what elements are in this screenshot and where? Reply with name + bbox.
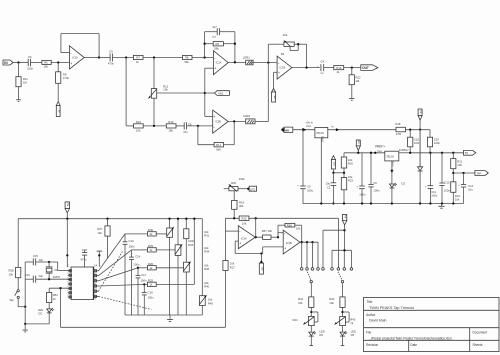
node <box>98 56 100 58</box>
svg-text:IC1A: IC1A <box>72 56 78 60</box>
svg-text:470n: 470n <box>80 258 87 262</box>
net flag 5V right <box>464 150 476 155</box>
op-amp IC2B <box>213 110 229 133</box>
node <box>343 172 345 174</box>
svg-text:+: + <box>278 71 280 75</box>
node <box>153 125 155 127</box>
wire wiper to VB1 <box>157 92 205 94</box>
svg-text:R6: R6 <box>44 61 48 65</box>
svg-text:Tap: Tap <box>9 298 14 302</box>
svg-text:R4: R4 <box>281 52 285 56</box>
node <box>320 202 322 204</box>
capacitor C7 <box>205 25 235 39</box>
node <box>419 129 421 131</box>
wire fan diagonals <box>99 234 152 310</box>
op-amp IC3B <box>283 230 300 254</box>
node <box>143 283 145 285</box>
capacitor C2 <box>357 153 366 204</box>
resistor R16 <box>324 66 344 75</box>
svg-text:5V: 5V <box>419 110 423 114</box>
resistor R18 <box>395 122 405 136</box>
svg-text:R36: R36 <box>204 267 210 271</box>
svg-text:100n: 100n <box>373 188 380 192</box>
node <box>153 56 155 58</box>
node <box>66 254 68 256</box>
node <box>203 56 205 58</box>
svg-text:10k: 10k <box>296 226 301 230</box>
LDR2 <box>243 114 255 124</box>
capacitor C19 column <box>142 284 154 315</box>
wire IC1B plus to VB <box>274 72 278 88</box>
svg-text:R25: R25 <box>148 279 154 283</box>
regulator 78L05 second <box>385 151 410 161</box>
svg-text:10k: 10k <box>204 246 209 250</box>
capacitor C8 <box>176 122 213 134</box>
svg-text:LED: LED <box>38 308 43 312</box>
svg-text:C20: C20 <box>434 137 440 141</box>
wire <box>192 57 213 59</box>
node <box>409 152 411 154</box>
svg-text:100n: 100n <box>140 279 147 283</box>
wire feedback IC1B <box>306 44 308 67</box>
potentiometer R31 <box>167 219 174 315</box>
node <box>66 218 68 220</box>
wire <box>255 63 268 122</box>
svg-text:R43: R43 <box>350 317 356 321</box>
regulator 78L05 <box>306 120 328 137</box>
capacitor C18 <box>80 248 87 267</box>
wire to TAP flag <box>453 172 475 174</box>
resistor R17 <box>223 231 235 327</box>
svg-text:10k: 10k <box>204 264 209 268</box>
resistor R41 <box>298 297 314 317</box>
svg-text:10k: 10k <box>457 163 462 167</box>
capacitor C15 <box>25 254 49 265</box>
svg-text:VB: VB <box>333 162 337 166</box>
svg-text:10k: 10k <box>242 221 247 225</box>
resistor R9 <box>56 63 70 102</box>
resistor R26 row <box>138 262 184 270</box>
svg-text:R41: R41 <box>298 297 304 301</box>
chip right pins <box>94 270 99 301</box>
svg-text:R20: R20 <box>231 181 237 185</box>
svg-text:C16: C16 <box>25 273 31 277</box>
chip left pins <box>67 270 71 298</box>
svg-text:VB: VB <box>273 95 277 99</box>
wire <box>24 262 26 324</box>
svg-text:C14: C14 <box>135 255 141 259</box>
capacitor C16 bottom row <box>25 273 71 283</box>
node <box>306 241 308 243</box>
svg-text:C3: C3 <box>28 55 32 59</box>
svg-text:Sheets: Sheets <box>473 343 483 347</box>
wire <box>344 67 361 69</box>
node <box>452 172 454 174</box>
svg-text:LED: LED <box>319 329 324 333</box>
resistor R20a <box>341 153 353 178</box>
svg-text:R13: R13 <box>168 120 174 124</box>
svg-text:R34: R34 <box>204 250 210 254</box>
svg-text:100n: 100n <box>434 141 441 145</box>
input connector IN <box>3 60 13 65</box>
svg-text:Out: Out <box>377 149 382 153</box>
wire pin1 feed <box>66 219 68 267</box>
svg-text:10k: 10k <box>348 175 353 179</box>
wire IC3B minus stub <box>278 225 283 237</box>
svg-text:56k: 56k <box>214 46 219 50</box>
wire to C5 <box>302 130 304 186</box>
svg-text:R33: R33 <box>188 243 194 247</box>
pot labels column <box>204 230 210 289</box>
svg-text:C7: C7 <box>212 35 216 39</box>
svg-text:VB: VB <box>261 267 265 271</box>
wire IC3B out row <box>300 241 318 243</box>
resistor R38 <box>278 223 302 242</box>
wire to IC3B plus <box>263 247 284 254</box>
wire <box>234 32 236 63</box>
diode D2 <box>399 130 423 204</box>
svg-text:TWIN PEAKS Tap Tremolo: TWIN PEAKS Tap Tremolo <box>369 306 414 310</box>
wire feedback vertical <box>255 218 257 237</box>
svg-text:5V: 5V <box>343 215 347 219</box>
node <box>332 202 334 204</box>
wire long ground loop <box>61 288 226 327</box>
node <box>351 66 353 68</box>
svg-text:100u: 100u <box>307 189 314 193</box>
svg-text:100n: 100n <box>129 245 136 249</box>
svg-text:R31: R31 <box>204 234 210 238</box>
svg-text:LDR1: LDR1 <box>243 56 251 60</box>
wire feedback left vertical <box>204 32 206 58</box>
wire vertical to trimmer <box>153 58 155 89</box>
svg-text:C15: C15 <box>414 137 420 141</box>
svg-text:..\Pedal projects\Twin Peaks T: ..\Pedal projects\Twin Peaks Tremolo\sch… <box>369 336 452 340</box>
svg-text:D6: D6 <box>319 333 323 337</box>
svg-text:100n: 100n <box>148 296 155 300</box>
svg-text:R32: R32 <box>53 293 59 297</box>
svg-text:78L05: 78L05 <box>316 131 324 135</box>
wire IC2A plus input <box>205 68 214 116</box>
svg-text:C9: C9 <box>109 50 113 54</box>
resistor R5 <box>205 42 235 51</box>
capacitor C9 <box>99 50 114 66</box>
capacitor C13 column <box>123 234 135 315</box>
node <box>17 61 19 63</box>
svg-text:100n: 100n <box>444 188 451 192</box>
node <box>332 172 334 174</box>
resistor R30 row <box>125 228 167 236</box>
svg-text:IC2A: IC2A <box>216 61 222 65</box>
wire IC2B plus <box>205 115 213 117</box>
svg-text:1N5817: 1N5817 <box>399 148 409 152</box>
svg-text:10k: 10k <box>455 198 460 202</box>
node <box>193 218 195 220</box>
wire IC3A plus <box>235 241 263 253</box>
svg-text:R30: R30 <box>148 228 154 232</box>
svg-text:R26: R26 <box>148 262 154 266</box>
svg-text:R16: R16 <box>336 66 342 70</box>
net flag TAP <box>475 171 488 176</box>
svg-text:R11: R11 <box>23 77 28 81</box>
potentiometer R43 <box>334 312 356 326</box>
svg-text:D2: D2 <box>402 182 406 186</box>
node <box>462 172 464 174</box>
net label VREF <box>374 145 385 154</box>
node <box>255 236 257 238</box>
node <box>267 61 269 63</box>
svg-text:100n: 100n <box>133 263 140 267</box>
wire 5V out <box>328 125 396 132</box>
resistor R19 <box>232 191 245 219</box>
resistor R21 <box>451 153 463 182</box>
resistor R14 feedback <box>198 121 234 151</box>
wire LFO bottom rail <box>125 314 202 316</box>
node <box>343 249 345 251</box>
wire <box>143 57 183 59</box>
node <box>429 152 431 154</box>
net flag VB1 <box>205 91 230 96</box>
resistor R28 <box>9 219 21 290</box>
svg-text:100k: 100k <box>239 177 246 181</box>
svg-text:10k: 10k <box>208 298 213 302</box>
wire IC1B output <box>292 67 320 69</box>
svg-text:+: + <box>70 62 72 66</box>
svg-text:IC1B: IC1B <box>279 66 285 70</box>
svg-text:R45: R45 <box>208 301 214 305</box>
node <box>357 152 359 154</box>
node <box>233 120 235 122</box>
node <box>24 306 26 308</box>
svg-text:10k: 10k <box>204 281 209 285</box>
wire <box>153 98 155 126</box>
wire IC3A minus <box>226 218 239 231</box>
wire <box>25 323 49 325</box>
capacitor C10a box <box>408 130 421 153</box>
svg-text:VB1: VB1 <box>218 92 224 96</box>
svg-text:C15: C15 <box>33 254 39 258</box>
svg-text:LFO: LFO <box>250 187 255 191</box>
wire GND pin 78L05 <box>320 136 324 204</box>
svg-text:C6: C6 <box>373 181 377 185</box>
svg-text:+9v in: +9v in <box>306 120 314 124</box>
node <box>57 61 59 63</box>
capacitor C17 column <box>136 268 147 315</box>
node <box>255 217 257 219</box>
svg-text:14: 14 <box>94 263 98 267</box>
node <box>197 125 199 127</box>
resistor R13 <box>166 120 176 133</box>
svg-text:40k: 40k <box>283 33 288 37</box>
node <box>277 236 279 238</box>
wire IC3A out <box>255 236 262 238</box>
capacitor C10 <box>439 153 450 204</box>
output connector OUT <box>361 65 378 71</box>
svg-text:5V: 5V <box>465 151 469 155</box>
svg-text:R7: R7 <box>136 56 140 60</box>
node <box>301 241 303 243</box>
ground <box>16 100 21 102</box>
net flag OSC down <box>342 215 347 231</box>
node <box>441 202 443 204</box>
wire vertical to lower row <box>125 58 127 126</box>
svg-text:10u: 10u <box>468 188 473 192</box>
node <box>48 278 50 280</box>
node <box>106 218 108 220</box>
LED D1 <box>390 183 397 204</box>
svg-text:10k: 10k <box>163 88 168 92</box>
capacitor C20 box <box>427 130 440 153</box>
svg-text:C11: C11 <box>431 190 436 194</box>
svg-text:R21: R21 <box>457 159 463 163</box>
capacitor C14 column <box>129 250 141 315</box>
wire ground rail power <box>303 203 464 205</box>
svg-text:10k: 10k <box>348 158 353 162</box>
capacitor C5 <box>297 184 313 203</box>
ground <box>23 324 28 332</box>
svg-text:R38: R38 <box>287 223 293 227</box>
net flag VB lfo <box>259 254 264 275</box>
node <box>168 218 170 220</box>
resistor R29 row <box>132 244 176 252</box>
node <box>260 252 262 254</box>
svg-text:100n: 100n <box>27 66 34 70</box>
node <box>24 323 26 325</box>
node <box>233 217 235 219</box>
resistor R24 <box>451 182 461 204</box>
potentiometer R44 <box>293 312 318 326</box>
svg-text:LED: LED <box>351 329 356 333</box>
switch dashes left <box>307 272 312 297</box>
svg-text:VB: VB <box>357 140 361 144</box>
svg-text:C10: C10 <box>444 180 450 184</box>
wire IC3A feedback row <box>226 217 339 219</box>
svg-text:R8: R8 <box>185 56 189 60</box>
svg-text:10k: 10k <box>97 231 102 235</box>
svg-text:470k: 470k <box>63 76 70 80</box>
capacitor C1 <box>326 173 337 204</box>
wire feedback IC1A <box>61 34 99 58</box>
svg-text:10k: 10k <box>204 230 209 234</box>
svg-text:File: File <box>366 331 371 335</box>
header circles <box>300 268 352 271</box>
svg-text:10k: 10k <box>9 272 14 276</box>
svg-text:78L05: 78L05 <box>386 155 394 159</box>
svg-text:GND: GND <box>320 136 324 142</box>
svg-text:5V: 5V <box>66 202 70 206</box>
svg-text:C12: C12 <box>468 184 474 188</box>
node <box>419 202 421 204</box>
node <box>137 267 139 269</box>
svg-text:Out: Out <box>306 124 311 128</box>
ground <box>349 98 354 100</box>
ground <box>438 204 444 209</box>
resistor R22 <box>349 68 361 99</box>
switch SW1 tap <box>9 290 25 307</box>
resistor R35 <box>239 216 249 225</box>
svg-text:C5: C5 <box>307 185 311 189</box>
svg-text:TAP: TAP <box>476 171 481 175</box>
capacitor C3 <box>27 55 34 71</box>
node <box>297 43 299 45</box>
svg-text:IC2B: IC2B <box>215 120 221 124</box>
resistor R25 row <box>144 219 194 287</box>
svg-text:R44: R44 <box>293 318 299 322</box>
svg-text:R23: R23 <box>348 178 354 182</box>
svg-text:R40: R40 <box>204 285 210 289</box>
resistor R27 <box>97 219 110 259</box>
wire IC2A output <box>228 62 246 64</box>
svg-text:R22: R22 <box>356 75 362 79</box>
resistor R7 <box>133 55 143 64</box>
switch dashes right <box>338 272 344 297</box>
resistor R8 <box>183 55 193 64</box>
node <box>361 202 363 204</box>
wire flag to divider <box>333 172 344 174</box>
svg-text:C13: C13 <box>129 239 135 243</box>
resistor R11 <box>16 63 28 100</box>
net flag VB <box>272 89 277 103</box>
node <box>305 66 307 68</box>
svg-text:C17: C17 <box>141 273 147 277</box>
svg-text:R10: R10 <box>136 120 142 124</box>
wire <box>293 129 315 131</box>
resistor R10 <box>134 120 144 132</box>
net flag VB up <box>331 156 336 173</box>
svg-text:VB: VB <box>58 109 62 113</box>
title block <box>364 298 500 352</box>
node <box>441 152 443 154</box>
svg-text:56k: 56k <box>184 60 189 64</box>
svg-text:22p: 22p <box>39 258 44 262</box>
capacitor C6 <box>368 153 379 204</box>
potentiometer R34 <box>175 219 182 315</box>
svg-text:R42: R42 <box>329 297 335 301</box>
node <box>370 152 372 154</box>
svg-text:R37 10k: R37 10k <box>262 229 273 233</box>
svg-text:4n7: 4n7 <box>212 25 217 29</box>
wire <box>126 125 133 127</box>
svg-text:+: + <box>214 67 216 71</box>
op-amp IC2A <box>213 51 228 75</box>
node <box>234 61 236 63</box>
svg-text:IC3B: IC3B <box>286 241 292 245</box>
capacitor C12 <box>458 173 473 204</box>
op-amp IC1B <box>277 56 292 79</box>
svg-text:R5: R5 <box>216 42 220 46</box>
node <box>185 218 187 220</box>
node <box>343 229 345 231</box>
svg-text:R20: R20 <box>348 162 354 166</box>
svg-text:100u: 100u <box>431 194 438 198</box>
svg-text:Revision: Revision <box>366 343 378 347</box>
node <box>341 311 343 313</box>
svg-text:22p: 22p <box>39 274 44 278</box>
svg-text:18k: 18k <box>168 129 173 133</box>
crystal X1 <box>46 262 61 279</box>
svg-text:5k6: 5k6 <box>216 148 221 152</box>
net flag LFO <box>238 186 257 191</box>
net flag 5V down <box>418 109 423 130</box>
IC IC3 PIC chip <box>67 263 98 299</box>
wire IC2B output <box>228 121 246 123</box>
svg-text:10k: 10k <box>298 301 303 305</box>
LED LED3 <box>309 326 325 346</box>
capacitor C4 <box>317 60 324 76</box>
resistor R33 <box>184 219 195 263</box>
svg-text:DC: DC <box>38 312 42 316</box>
node <box>234 43 236 45</box>
wire <box>143 125 166 127</box>
